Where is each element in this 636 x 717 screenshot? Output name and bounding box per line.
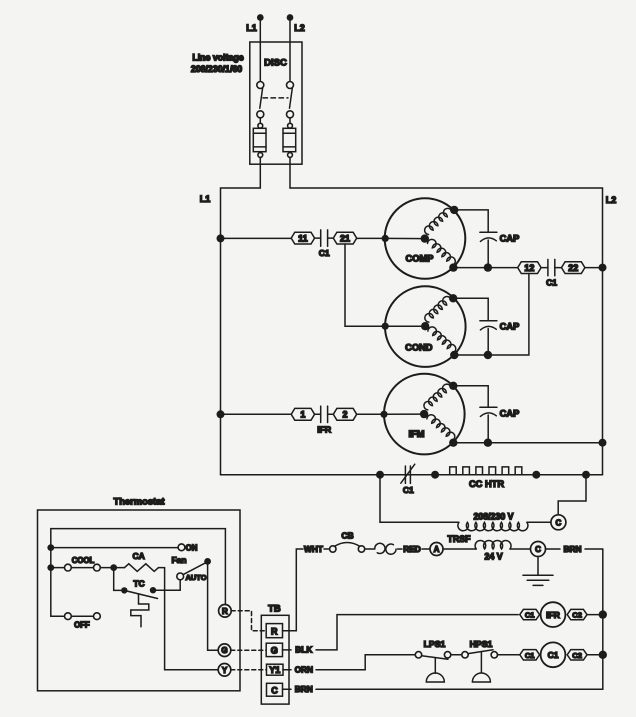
wire TC to fan switch	[153, 580, 180, 590]
svg-text:208/230 V: 208/230 V	[473, 512, 513, 522]
svg-text:CA: CA	[132, 551, 144, 561]
svg-text:G: G	[271, 646, 278, 656]
contact IFR (1-2)	[315, 406, 334, 434]
svg-text:C1: C1	[525, 651, 535, 660]
svg-text:Y1: Y1	[269, 665, 280, 675]
contact C1 (12-22)	[541, 259, 561, 287]
label RED	[398, 544, 431, 554]
dashed link Y to TB	[231, 669, 267, 671]
wire IFR to rail	[587, 614, 603, 616]
svg-text:Line voltage: Line voltage	[192, 53, 243, 63]
wire fuse F1 to bus	[259, 157, 261, 188]
wire C1 coil to rail	[587, 654, 603, 656]
svg-text:OFF: OFF	[74, 621, 90, 630]
svg-text:TB: TB	[268, 603, 281, 614]
terminal 12	[518, 262, 541, 274]
terminal TB-Y1	[267, 664, 284, 675]
svg-text:C1: C1	[403, 485, 414, 495]
wire WHT-CB	[324, 548, 330, 550]
motor COMP	[382, 198, 466, 279]
terminal G (thermostat)	[218, 644, 231, 657]
fuse F1	[253, 118, 266, 158]
wire fuse F2 to bus	[289, 157, 291, 188]
terminal 11	[291, 232, 314, 244]
svg-text:BRN: BRN	[564, 544, 582, 554]
svg-text:COMP: COMP	[406, 254, 434, 264]
svg-text:L2: L2	[606, 195, 617, 205]
node tstat-COOL	[47, 564, 54, 571]
svg-text:2: 2	[342, 410, 347, 420]
label line voltage	[191, 53, 244, 75]
dashed switch tie bar	[263, 97, 288, 99]
wire LPS1 to HPS1	[451, 654, 462, 656]
motor IFM	[380, 374, 464, 455]
contact fan ON	[51, 543, 198, 552]
wire A to secondary	[443, 548, 476, 550]
svg-text:11: 11	[298, 233, 308, 243]
bus L1 rail (left)	[200, 188, 261, 475]
svg-text:TC: TC	[133, 579, 144, 589]
wire row3 left	[221, 413, 292, 415]
terminal Y (thermostat)	[218, 664, 231, 677]
contact TC (thermostat cooling)	[121, 579, 157, 599]
wire HPS1 to C1 coil	[498, 654, 520, 656]
switch COOL	[51, 556, 114, 571]
wire thermostat left rail	[50, 548, 52, 617]
contact C1 (11-21)	[315, 230, 334, 258]
wire row1 left	[221, 237, 292, 239]
heat anticipator CA	[114, 551, 165, 571]
svg-text:C: C	[556, 518, 562, 527]
terminal C1 (IFR coil)	[520, 609, 540, 619]
wire 21 to COND row	[345, 244, 385, 326]
bus 24V common rail	[602, 549, 604, 689]
circuit breaker CB	[330, 531, 365, 553]
svg-text:12: 12	[524, 263, 534, 273]
wire row3 to IFM	[357, 413, 384, 415]
sensor bulb (TC)	[131, 594, 149, 627]
svg-text:Thermostat: Thermostat	[113, 496, 164, 507]
svg-text:IFM: IFM	[408, 429, 424, 439]
svg-text:C1: C1	[546, 278, 557, 288]
wire TB-Y1 / ORN to LPS1	[283, 655, 415, 675]
terminal block TB	[261, 603, 289, 705]
wire TB-G / BLK to IFR row	[283, 615, 519, 655]
terminal TB-R	[266, 624, 282, 638]
wire bottom to TRSF primary C	[558, 475, 586, 515]
wire secondary to C	[510, 548, 531, 550]
plug connector	[375, 543, 396, 554]
node L1-row1	[217, 234, 225, 242]
run capacitor CAP (COMP)	[454, 210, 519, 272]
switch Fan (AUTO)	[171, 555, 211, 582]
node bottom-branch	[582, 471, 590, 479]
svg-text:C1: C1	[525, 611, 535, 620]
dashed link G to TB	[231, 649, 266, 651]
terminal 21	[333, 232, 356, 244]
terminal C1 (contactor coil)	[520, 650, 540, 660]
svg-text:24 V: 24 V	[485, 552, 503, 562]
node bottom-C1-left	[376, 471, 384, 479]
pressure switch HPS1	[462, 639, 498, 682]
run capacitor CAP (COND)	[453, 298, 519, 359]
dashed link R to TB	[231, 611, 266, 631]
wire CA node down to TC	[114, 568, 121, 591]
svg-text:HPS1: HPS1	[470, 639, 493, 649]
relay coil IFR	[541, 602, 566, 627]
node row1-L2	[599, 264, 607, 272]
svg-text:LPS1: LPS1	[424, 639, 446, 649]
bus L2 rail (right)	[290, 188, 616, 475]
node C1-rail	[599, 651, 607, 659]
pressure switch LPS1	[415, 639, 451, 682]
svg-text:CAP: CAP	[500, 322, 520, 332]
svg-text:CB: CB	[341, 531, 353, 541]
motor COND	[382, 286, 466, 367]
disconnect box DISC	[250, 42, 302, 164]
wire TB-R up to WHT row	[283, 549, 304, 631]
fuse F2	[283, 118, 296, 158]
transformer TRSF secondary winding	[448, 534, 512, 562]
node IFM-L2	[599, 439, 607, 447]
wire COND to 12 branch	[454, 274, 529, 356]
svg-text:L1: L1	[200, 194, 211, 204]
node bottom-C1-right	[431, 471, 439, 479]
svg-text:A: A	[434, 545, 440, 554]
svg-text:CAP: CAP	[500, 409, 520, 419]
label BRN (secondary)	[546, 544, 603, 554]
svg-text:IFR: IFR	[546, 610, 560, 620]
ground (secondary C)	[523, 557, 553, 586]
terminal C (secondary)	[531, 542, 546, 557]
svg-text:R: R	[222, 607, 228, 616]
wire primary to terminal C	[527, 521, 551, 523]
heater CC HTR	[450, 467, 529, 489]
contact C1 with slash (crankcase heater circuit)	[401, 464, 415, 495]
svg-text:208/230/1/60: 208/230/1/60	[191, 64, 242, 74]
wire CB-plug	[365, 548, 375, 550]
svg-text:C2: C2	[572, 651, 582, 660]
svg-text:L2: L2	[294, 23, 305, 33]
svg-text:CC HTR: CC HTR	[469, 479, 504, 489]
terminal 1	[291, 408, 314, 420]
node IFR-rail	[599, 610, 607, 618]
switch DISC pole L1	[257, 82, 264, 118]
svg-text:CAP: CAP	[500, 234, 520, 244]
svg-text:BRN: BRN	[295, 684, 313, 694]
node bottom-HTR-right	[532, 471, 540, 479]
terminal TB-G	[266, 643, 282, 656]
svg-text:AUTO: AUTO	[185, 573, 206, 582]
bus bottom conductor	[221, 474, 603, 476]
wire TB-C / BRN bottom row	[283, 684, 603, 694]
node tstat-ON	[47, 544, 54, 551]
terminal C2 (IFR coil)	[567, 609, 587, 619]
svg-text:COOL: COOL	[72, 556, 95, 565]
terminal A	[430, 543, 443, 556]
svg-text:Fan: Fan	[171, 555, 186, 565]
svg-text:L1: L1	[246, 23, 257, 33]
svg-text:RED: RED	[403, 544, 421, 554]
svg-text:21: 21	[340, 233, 350, 243]
node tstat-CA	[110, 564, 117, 571]
wire IFM to L2 rail	[453, 442, 602, 444]
switch DISC pole L2	[287, 82, 294, 118]
svg-text:G: G	[221, 646, 227, 655]
svg-text:C1: C1	[548, 650, 559, 660]
svg-text:ORN: ORN	[295, 665, 313, 675]
terminal R (thermostat)	[219, 605, 232, 618]
svg-text:Y: Y	[222, 666, 228, 675]
svg-text:COND: COND	[405, 343, 433, 353]
thermostat box	[38, 496, 241, 691]
terminal 22	[562, 262, 585, 274]
svg-text:ON: ON	[186, 543, 198, 552]
node L1-row3	[217, 410, 225, 418]
switch OFF	[51, 613, 101, 630]
svg-text:C2: C2	[572, 611, 582, 620]
svg-text:IFR: IFR	[317, 424, 332, 434]
svg-text:R: R	[271, 627, 278, 637]
svg-text:WHT: WHT	[304, 544, 323, 554]
svg-text:DISC: DISC	[264, 58, 287, 69]
wire fan to G	[208, 561, 219, 650]
wire bottom-left to TRSF primary	[380, 475, 459, 523]
svg-text:TRSF: TRSF	[448, 534, 472, 544]
svg-text:1: 1	[300, 410, 305, 420]
svg-text:C1: C1	[319, 248, 330, 258]
svg-text:C: C	[271, 686, 278, 696]
wire COMP to terminal 12	[453, 267, 517, 269]
transformer TRSF primary winding	[458, 512, 528, 531]
terminal C2 (contactor coil)	[567, 650, 587, 660]
wire 22 to L2 rail	[585, 267, 603, 269]
contactor coil C1	[541, 642, 566, 667]
svg-text:C: C	[535, 545, 541, 554]
terminal 2	[333, 408, 356, 420]
wire CA to Y	[165, 568, 219, 670]
svg-text:22: 22	[568, 263, 578, 273]
terminal TB-C	[267, 683, 283, 696]
run capacitor CAP (IFM)	[453, 386, 519, 447]
wire row1 to COMP	[357, 237, 386, 239]
wire L2 supply lead	[287, 15, 304, 82]
wire L1 supply lead	[246, 15, 263, 82]
svg-text:BLK: BLK	[295, 645, 312, 655]
wire thermostat feed (top)	[51, 529, 226, 605]
terminal C (primary)	[551, 515, 566, 530]
